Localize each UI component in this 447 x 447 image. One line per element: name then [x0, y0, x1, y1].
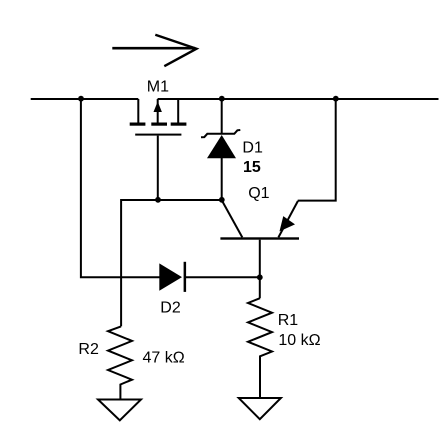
svg-text:M1: M1	[147, 79, 169, 96]
svg-text:10 kΩ: 10 kΩ	[278, 332, 320, 349]
current-direction arrow	[112, 35, 196, 66]
wire R2 branch vertical	[120, 199, 122, 326]
svg-text:D2: D2	[160, 300, 181, 317]
svg-text:47 kΩ: 47 kΩ	[143, 350, 185, 367]
node junction dot (Q1 base / R1 / D2)	[257, 274, 263, 280]
svg-text:R1: R1	[278, 312, 299, 329]
zener diode D1	[201, 99, 240, 200]
node junction dot on rail (left branch)	[78, 96, 84, 102]
wire emitter to rail	[298, 99, 336, 201]
diode D2	[159, 262, 259, 292]
node junction dot (gate to mid wire)	[155, 197, 161, 203]
node junction dot on rail (D1 branch)	[219, 96, 225, 102]
svg-text:R2: R2	[78, 341, 99, 358]
node junction dot on rail (Q1 emitter branch)	[333, 96, 339, 102]
transistor Q1	[220, 201, 299, 278]
resistor R1	[248, 298, 272, 398]
ground (R1)	[239, 398, 281, 419]
resistor R2	[108, 326, 132, 399]
mosfet M1	[130, 99, 187, 200]
ground (R2)	[98, 400, 141, 421]
svg-text:D1: D1	[242, 139, 263, 156]
wire top rail left segment	[31, 98, 139, 100]
wire mid horizontal (gate node)	[121, 199, 222, 201]
svg-text:15: 15	[243, 159, 261, 176]
svg-text:Q1: Q1	[248, 185, 269, 202]
wire top rail right segment	[158, 98, 439, 100]
node junction dot (D1 anode / Q1 collector)	[219, 197, 225, 203]
wire R1 top lead	[259, 277, 261, 298]
wire left branch vertical and bottom horizontal to D2	[81, 99, 160, 277]
